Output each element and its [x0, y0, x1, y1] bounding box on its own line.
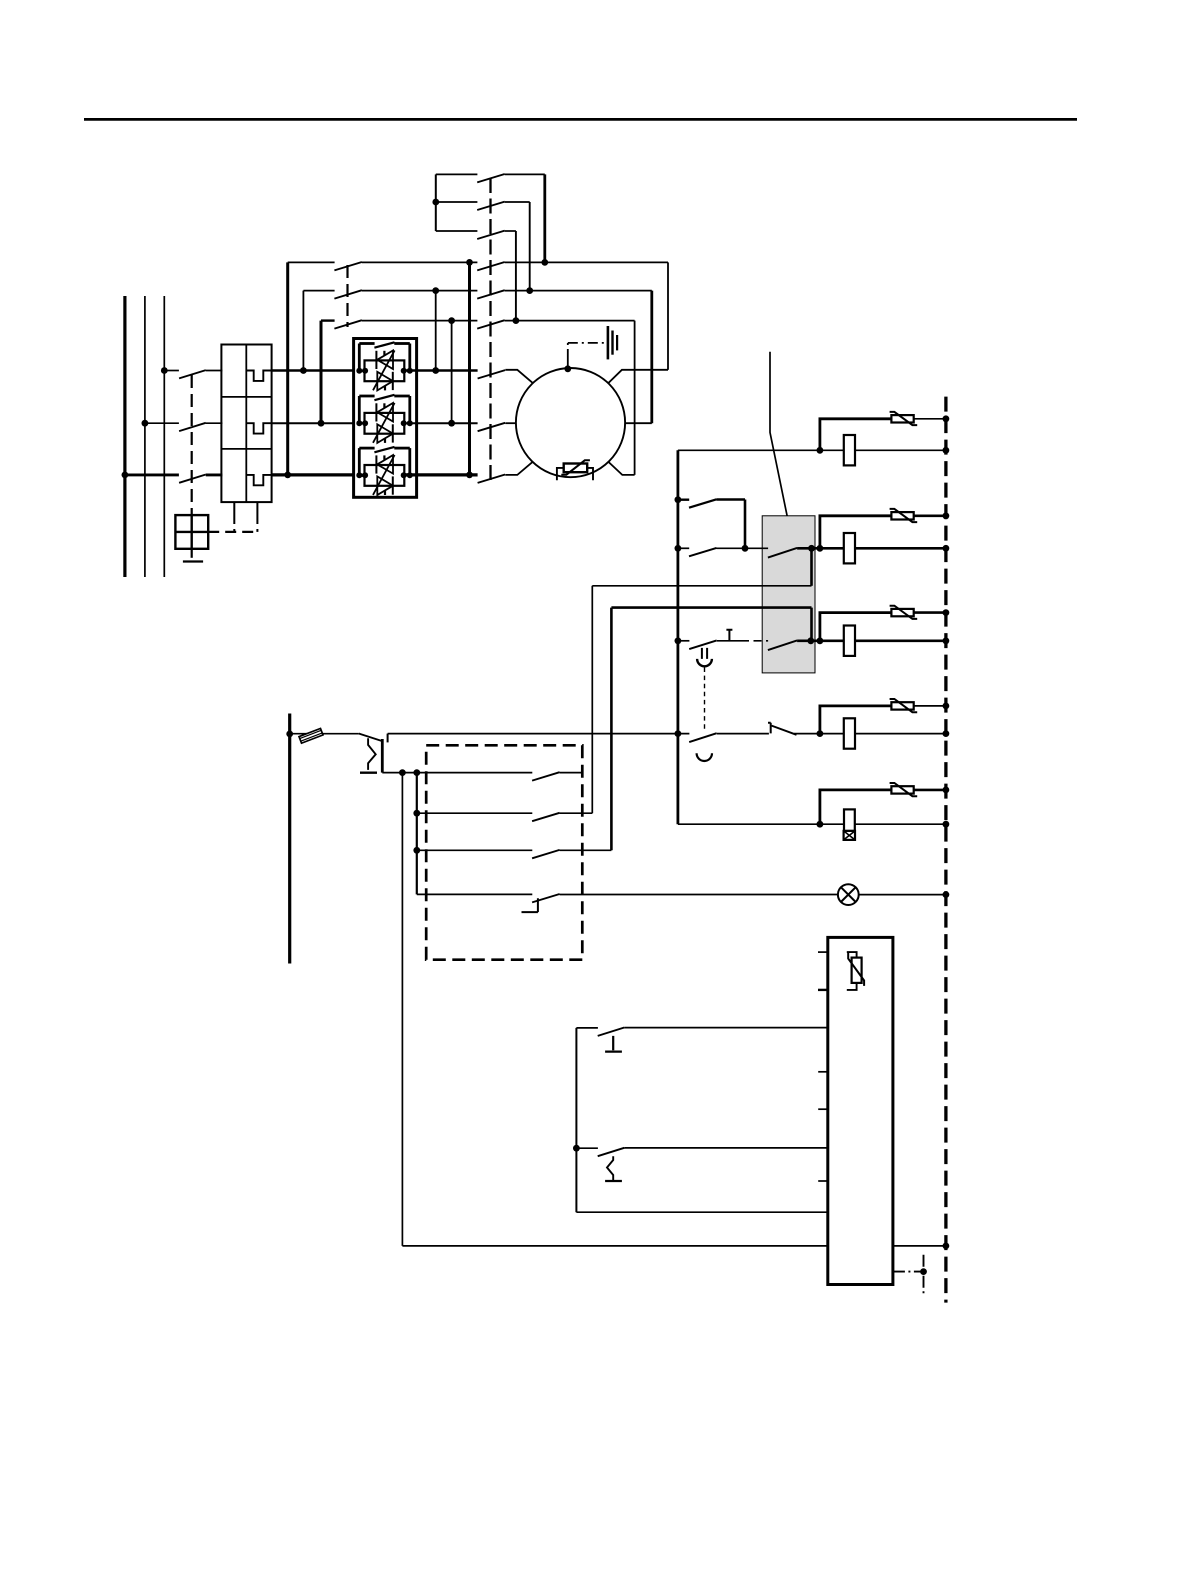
- node RV5 bus: [943, 787, 950, 794]
- node phase1 right bypass: [432, 367, 439, 374]
- thyristor unit 1 bypass top left: [359, 342, 374, 345]
- thyristor unit 1 SCR down gate tick: [384, 386, 386, 391]
- breaker Q1 pole 2 out wire: [206, 422, 223, 424]
- motor M1 terminal UL: [505, 370, 532, 383]
- breaker Q1 operator box: [175, 515, 208, 549]
- thyristor unit 1 nodes: [356, 368, 362, 374]
- branch 3 mech link dashed: [741, 640, 768, 642]
- motor earth link dash-dot h: [568, 342, 605, 344]
- node RV2 bus: [943, 512, 950, 519]
- selector throw down wire: [381, 739, 384, 773]
- varistor path branch 3: [820, 613, 892, 641]
- wire coil K5 to bus: [855, 823, 946, 825]
- overload relay F1 trip stub left: [233, 502, 235, 517]
- contactor K1 blade phase 2: [478, 423, 506, 431]
- thyristor unit 2 bypass cap right: [408, 396, 411, 423]
- overload heater element phase 1: [246, 371, 271, 381]
- thyristor unit 1 body: [365, 360, 405, 381]
- node row B: [413, 810, 420, 817]
- switch A1 blade: [477, 174, 505, 182]
- node earth reference: [920, 1268, 927, 1275]
- node motor top: [564, 365, 571, 372]
- control unit stub 1: [818, 951, 828, 953]
- thyristor unit 3 SCR up cathode bar: [375, 455, 377, 473]
- node branch3 a: [807, 637, 814, 644]
- varistor RV6 bar: [848, 953, 864, 986]
- node RV4 bus: [943, 703, 950, 710]
- leader line to K3 contacts: [770, 352, 789, 523]
- node control rail: [286, 731, 293, 738]
- fuse F2 body rotated: [299, 728, 323, 743]
- thermistor R1 bar: [561, 460, 590, 474]
- switch Q0 blade middle: [477, 290, 505, 298]
- switch S3 stop mark: [605, 1180, 622, 1182]
- overload heater element phase 2: [246, 423, 271, 433]
- control rail left: [288, 714, 291, 964]
- thyristor unit 2 bypass cap left: [358, 396, 361, 423]
- switch S2 blade: [598, 1028, 625, 1036]
- sensor row 1 out wire: [624, 1027, 828, 1029]
- relay coil K1: [844, 435, 855, 465]
- row C out wire: [560, 849, 612, 851]
- switch Q0 blade bottom: [477, 320, 505, 328]
- thermistor R1 leads: [557, 468, 593, 480]
- switch A1 in wire: [436, 173, 478, 175]
- control bus left vertical: [677, 450, 680, 824]
- thyristor unit 2 bypass blade: [374, 395, 394, 400]
- thyristor unit 1 bypass blade: [374, 342, 394, 347]
- wire phase1 inside module: [359, 370, 365, 372]
- node lamp bus: [943, 891, 950, 898]
- varistor path branch 2: [820, 516, 892, 549]
- wire phase1 to module: [272, 369, 354, 371]
- thyristor unit 3 SCR up gate tick: [383, 455, 385, 459]
- node branch4 bus: [675, 730, 682, 737]
- node bypass middle a: [432, 287, 439, 294]
- breaker Q1 pole 1 wire: [164, 370, 179, 372]
- wire varistor RV4 to bus: [914, 705, 946, 707]
- node aux contact bus: [675, 496, 682, 503]
- control unit stub 5: [818, 1180, 828, 1182]
- wire to selector row B horizontal: [592, 585, 811, 587]
- control unit stub 2: [818, 989, 828, 991]
- node K2 bus: [943, 545, 950, 552]
- wire phase2 inside module: [359, 422, 365, 424]
- wire coil K4 to bus: [855, 733, 946, 735]
- switch A3 blade: [477, 231, 505, 239]
- node branch2 bus: [675, 545, 682, 552]
- breaker Q1 operator cross: [175, 515, 208, 549]
- bypass row top left wire: [288, 261, 335, 263]
- motor frame wire: [567, 357, 569, 369]
- node branch3 tap: [817, 637, 824, 644]
- motor M1 terminal UR: [609, 370, 668, 383]
- thyristor unit 3 SCR down triangle: [377, 476, 393, 495]
- overload relay F1 trip stub left dashed: [233, 517, 235, 532]
- relay coil K2: [844, 533, 855, 563]
- thyristor unit 2 SCR up gate tick: [383, 403, 385, 407]
- varistor RV5: [891, 786, 913, 793]
- thyristor unit 2 SCR down triangle: [377, 424, 393, 443]
- node sensor loop: [573, 1145, 580, 1152]
- switch A3 in wire: [436, 230, 478, 232]
- branch 4 feed start tick: [387, 734, 389, 743]
- motor M1 circle: [516, 368, 625, 477]
- contactor K2 blade top: [334, 262, 362, 270]
- sensor row 2 out wire: [624, 1147, 828, 1149]
- thyristor unit 3 bypass top left: [359, 447, 374, 450]
- contact K3a blade: [768, 548, 797, 558]
- thyristor unit 2 bypass top left: [359, 395, 374, 398]
- thyristor unit 3 gate diagonal: [373, 455, 395, 495]
- thyristor unit 1 SCR up gate tick: [383, 351, 385, 355]
- thyristor unit 2 gate diagonal: [373, 403, 395, 443]
- node aux to branch2: [742, 545, 749, 552]
- switch S1 contact D blade: [532, 894, 560, 902]
- switch A3 out wire: [505, 230, 516, 232]
- lamp H1 circle: [838, 884, 859, 905]
- thyristor unit 1 SCR down anode bar: [392, 372, 394, 390]
- switch A1 out wire: [505, 173, 545, 175]
- contactor K2 linkage: [346, 265, 348, 327]
- varistor RV3: [891, 609, 913, 616]
- branch 2 mid wire: [717, 547, 769, 549]
- node branch2 tap: [817, 545, 824, 552]
- row D out wire to lamp: [560, 894, 838, 896]
- relay coil K4: [844, 718, 855, 748]
- node bypass bottom b: [513, 317, 520, 324]
- thyristor unit 1 gate diagonal: [373, 350, 395, 390]
- sensor loop vertical: [575, 1028, 577, 1212]
- breaker Q1 pole 3 wire: [125, 473, 179, 476]
- breaker Q1 linkage: [191, 375, 193, 515]
- switch A2 out wire: [505, 201, 530, 203]
- node bypass top a: [466, 259, 473, 266]
- node K5 bus: [943, 821, 950, 828]
- branch 4 NC contact blade: [772, 726, 797, 735]
- switch A2 in wire: [436, 201, 478, 203]
- node L3-phase1: [161, 367, 168, 374]
- node bypass top b: [541, 259, 548, 266]
- switch A3 drop wire: [515, 231, 517, 321]
- wire phase3 module to contactor: [404, 473, 478, 476]
- breaker Q1 pole 2 wire: [145, 422, 179, 424]
- wire bypass right phase1: [435, 291, 437, 371]
- node RV1 bus: [943, 415, 950, 422]
- wire bypass top to motor UR: [667, 262, 669, 369]
- node phase2 left bypass: [318, 420, 325, 427]
- wire branch3 riser: [810, 608, 813, 641]
- wire bypass right phase2: [451, 321, 453, 424]
- switch Q0 blade top: [477, 262, 505, 270]
- thyristor unit 3 SCR down anode bar: [392, 476, 394, 494]
- selector long drop wire: [401, 773, 403, 1246]
- branch 3 stop contact blade: [689, 640, 717, 649]
- contactor K2 blade bottom: [334, 320, 362, 328]
- relay coil K3: [844, 626, 855, 656]
- wire coil K2 to bus: [855, 547, 946, 550]
- selector thermal element: [368, 738, 376, 770]
- node K1 bus: [943, 447, 950, 454]
- switch S1 contact B blade: [532, 813, 560, 821]
- varistor path branch 5: [820, 790, 892, 824]
- node branch2 a: [808, 545, 815, 552]
- thyristor unit 2 SCR up triangle: [377, 403, 393, 422]
- varistor path branch 1: [820, 419, 892, 451]
- breaker trip linkage dashed: [208, 531, 257, 533]
- overload heater element phase 3: [246, 475, 271, 485]
- wire to selector row C vertical: [610, 608, 613, 851]
- node branch1 tap: [817, 447, 824, 454]
- wire varistor RV1 to bus: [914, 418, 946, 420]
- wire bypass bottom to motor LR: [634, 321, 636, 475]
- bypass row middle right wire: [505, 290, 652, 292]
- wire rail to fuse: [290, 733, 359, 735]
- thyristor unit 2 SCR up cathode bar: [375, 403, 377, 421]
- node branch4 tap: [817, 730, 824, 737]
- breaker Q1 linkage end tick: [183, 560, 203, 562]
- breaker Q1 pole 3 blade: [179, 475, 206, 483]
- wire control unit to bus: [893, 1245, 946, 1247]
- relay coil K5 body: [844, 809, 855, 831]
- thyristor unit 1 bypass cap right: [408, 344, 411, 371]
- branch 3 stop mark: [726, 630, 732, 641]
- node branch3 bus: [675, 637, 682, 644]
- breaker Q1 pole 2 blade: [179, 423, 206, 431]
- thyristor unit 2 SCR down gate tick: [384, 438, 386, 443]
- switch group A left bus: [435, 174, 437, 231]
- aux contact drop wire: [744, 500, 747, 549]
- selector row A wire: [382, 772, 532, 774]
- bypass row top right wire: [505, 261, 668, 263]
- varistor RV1: [891, 415, 913, 422]
- row C wire: [417, 849, 533, 851]
- sensor row 2 in wire: [576, 1147, 598, 1149]
- wire coil K1 to bus: [855, 449, 946, 451]
- branch 4 mid wire: [717, 733, 769, 735]
- bypass row bottom mid wire: [362, 320, 478, 322]
- node L1-phase3: [122, 472, 129, 479]
- wire varistor RV2 to bus: [914, 514, 946, 517]
- bypass row top mid wire: [362, 261, 478, 263]
- node bypass middle b: [526, 287, 533, 294]
- wire bypass left phase1: [302, 291, 304, 371]
- thyristor unit 1 bypass cap left: [358, 344, 361, 371]
- bypass row bottom left wire: [321, 319, 335, 321]
- node phase3 right bypass: [466, 472, 473, 479]
- supply line L1: [123, 296, 126, 577]
- control switch box dashed: [426, 745, 582, 959]
- thyristor unit 3 SCR up triangle: [377, 455, 393, 474]
- switch S1 contact A blade: [532, 772, 560, 780]
- overload relay F1 divider row2: [221, 448, 271, 450]
- node RV3 bus: [943, 609, 950, 616]
- bypass row middle left wire: [303, 290, 334, 292]
- motor earth link dash-dot v: [567, 343, 569, 357]
- control unit stub 4: [818, 1108, 828, 1110]
- breaker Q1 pole 1 out wire: [206, 370, 223, 372]
- wire bypass right phase3: [468, 262, 471, 475]
- supply line L2: [144, 296, 146, 577]
- page rule line: [84, 118, 1077, 121]
- emergency stop button head: [702, 648, 707, 659]
- branch 4 NC contact tick: [768, 723, 771, 734]
- branch 2 out wire: [797, 547, 844, 550]
- branch 5 row wire: [678, 823, 844, 825]
- thyristor unit 1 SCR up triangle: [377, 351, 393, 370]
- thyristor unit 1 SCR down triangle: [377, 372, 393, 391]
- soft starter module U1 outline: [354, 339, 417, 498]
- thyristor unit 2 nodes: [356, 420, 362, 426]
- wire lamp to bus: [859, 894, 946, 896]
- row B wire: [417, 812, 533, 814]
- main switch linkage dashed: [489, 178, 491, 481]
- branch 4 rotary actuator arc: [697, 753, 712, 761]
- wire coil K3 to bus: [855, 639, 946, 642]
- thyristor unit 2 body: [365, 413, 405, 434]
- control unit stub 3: [818, 1071, 828, 1073]
- wire to selector row B vertical: [591, 586, 593, 813]
- node row A b: [413, 769, 420, 776]
- thyristor unit 3 bypass top right: [394, 447, 410, 450]
- thyristor unit 3 body: [365, 465, 405, 486]
- branch 2 in wire: [678, 547, 689, 549]
- relay branch 1 row wire: [678, 449, 844, 451]
- node phase2 right bypass: [448, 420, 455, 427]
- branch 2 aux blade: [689, 548, 717, 556]
- breaker Q1 pole 3 out wire: [206, 473, 223, 476]
- node L2-phase2: [142, 420, 149, 427]
- row B-C link vertical: [416, 773, 418, 895]
- branch 4 out wire: [794, 733, 844, 735]
- node K4 bus: [943, 730, 950, 737]
- node row C: [413, 847, 420, 854]
- overload relay F1 body: [221, 345, 271, 503]
- control unit A1 box: [828, 937, 893, 1284]
- overload relay F1 trip stub right: [256, 502, 258, 517]
- sensor row 1 in wire: [576, 1027, 598, 1029]
- row D wire: [417, 893, 533, 895]
- switch A2 drop wire: [529, 202, 531, 291]
- thyristor unit 3 nodes: [356, 472, 362, 478]
- earth symbol bar1: [607, 326, 610, 359]
- contactor K1 blade phase 3: [478, 475, 506, 483]
- aux contact blade: [689, 499, 717, 507]
- thyristor unit 3 bypass cap left: [358, 448, 361, 475]
- node phase3 left bypass: [284, 472, 291, 479]
- selector thermal bar: [360, 772, 377, 774]
- wire phase3 inside module: [359, 474, 365, 477]
- overload relay F1 divider row1: [221, 396, 271, 398]
- selector switch blade: [359, 734, 382, 741]
- branch 3 in wire: [678, 640, 690, 642]
- emergency stop link dashed: [704, 668, 706, 731]
- wire bypass middle to motor MR: [650, 291, 653, 424]
- node K3 bus: [943, 637, 950, 644]
- thyristor unit 3 bypass blade: [374, 447, 394, 452]
- thyristor unit 1 SCR up cathode bar: [375, 351, 377, 369]
- highlight box K3 contacts: [762, 516, 815, 673]
- wire phase2 module to contactor: [404, 422, 478, 424]
- wire drop to control unit: [402, 1245, 827, 1247]
- earth reference dash-dot v: [923, 1255, 925, 1295]
- earth symbol bar3: [616, 335, 618, 350]
- motor M1 terminal ML: [505, 422, 516, 424]
- thyristor unit 3 bypass cap right: [408, 448, 411, 475]
- lamp H1 cross: [841, 887, 856, 902]
- node bypass bottom a: [448, 317, 455, 324]
- wire phase1 module to contactor: [404, 369, 478, 371]
- motor M1 terminal MR: [625, 422, 652, 424]
- contactor K2 blade middle: [334, 290, 362, 298]
- overload relay F1 trip stub right dashed: [256, 517, 258, 532]
- switch A2 blade: [477, 202, 505, 210]
- relay coil K5 indicator box: [844, 831, 855, 840]
- control bus right dashed: [944, 397, 947, 1303]
- varistor RV6 leads: [847, 952, 857, 990]
- varistor RV2: [891, 512, 913, 519]
- thyristor unit 3 SCR down gate tick: [384, 491, 386, 496]
- node branch5 tap: [817, 821, 824, 828]
- thyristor unit 1 bypass top right: [394, 342, 410, 345]
- earth symbol bar2: [611, 331, 613, 355]
- thermistor R1 body: [564, 464, 588, 473]
- motor M1 terminal LR: [609, 462, 635, 475]
- switch S2 stop mark: [605, 1036, 622, 1052]
- wire to selector row C horizontal: [611, 606, 811, 609]
- varistor path branch 4: [820, 706, 892, 734]
- switch S3 thermal element: [607, 1156, 613, 1181]
- aux contact out wire: [717, 498, 746, 501]
- branch 3 mid wire: [717, 640, 741, 642]
- breaker Q1 linkage lower: [191, 549, 193, 560]
- switch A1 drop wire: [543, 174, 546, 262]
- wire branch2 drop: [810, 548, 813, 586]
- overload relay F1 divider vertical: [245, 345, 247, 503]
- row A out wire: [560, 772, 583, 774]
- thyristor unit 2 SCR down anode bar: [392, 424, 394, 442]
- node bottom bus: [943, 1243, 950, 1250]
- varistor RV4: [891, 702, 913, 709]
- bypass row bottom right wire: [505, 320, 635, 322]
- aux contact in wire: [678, 499, 689, 501]
- row B out wire: [560, 812, 593, 814]
- relay coil K5 indicator cross: [844, 831, 855, 840]
- wire phase3 to module: [272, 473, 354, 476]
- bypass row middle mid wire: [362, 290, 478, 292]
- branch 4 feed wire: [388, 733, 690, 735]
- wire bypass left phase2: [320, 321, 323, 424]
- contact K3b blade: [768, 640, 797, 650]
- motor M1 terminal LL: [505, 462, 532, 475]
- wire bypass left phase3: [286, 262, 289, 475]
- thyristor unit 2 bypass top right: [394, 395, 410, 398]
- earth reference dash-dot h: [893, 1271, 928, 1273]
- branch 4 start blade: [689, 733, 717, 742]
- node group A mid: [432, 199, 439, 206]
- switch S3 blade: [598, 1148, 625, 1156]
- wire varistor RV3 to bus: [914, 611, 946, 614]
- sensor loop bottom wire: [576, 1211, 827, 1213]
- switch S1 contact D latch mark: [522, 898, 538, 912]
- contactor K1 blade phase 1: [478, 370, 506, 378]
- branch 3 out wire: [797, 639, 844, 642]
- node row A a: [399, 769, 406, 776]
- varistor RV6 body: [852, 958, 862, 983]
- supply line L3: [163, 296, 165, 577]
- wire phase2 to module: [272, 422, 354, 424]
- wire varistor RV5 to bus: [914, 789, 946, 792]
